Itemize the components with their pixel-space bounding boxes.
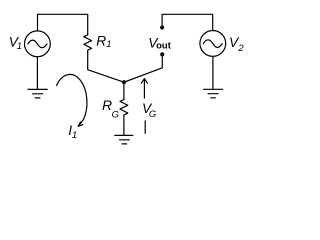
node dot Vout top — [160, 25, 164, 29]
arrow VG up — [141, 79, 147, 98]
svg-text:out: out — [156, 41, 172, 52]
svg-text:2: 2 — [237, 43, 244, 54]
wire junction down — [123, 82, 125, 99]
wire V2 bottom — [212, 56, 214, 89]
ground right — [204, 89, 223, 98]
ground left — [28, 89, 47, 98]
svg-text:1: 1 — [106, 39, 111, 50]
resistor R1 — [84, 35, 92, 52]
line VG lower — [144, 121, 146, 134]
svg-text:1: 1 — [72, 130, 77, 141]
wire junction to Vout tap — [124, 57, 162, 83]
voltage source V2 — [200, 31, 226, 57]
resistor RG — [120, 100, 128, 117]
svg-text:G: G — [149, 109, 156, 120]
svg-text:1: 1 — [17, 41, 22, 52]
wire RG bottom — [123, 117, 125, 135]
node dot Vout lower — [160, 52, 164, 56]
wire V1 bottom — [36, 57, 38, 89]
svg-text:G: G — [112, 109, 119, 120]
svg-text:R: R — [102, 98, 112, 113]
wire top-left rail — [38, 14, 88, 35]
wire R1 bottom to junction — [88, 52, 124, 82]
node junction — [122, 80, 126, 84]
svg-text:R: R — [96, 33, 106, 48]
ground center — [115, 135, 133, 144]
wire Vout top tap — [162, 14, 213, 30]
voltage source V1 — [25, 31, 51, 57]
arrow I1 loop — [57, 74, 87, 126]
